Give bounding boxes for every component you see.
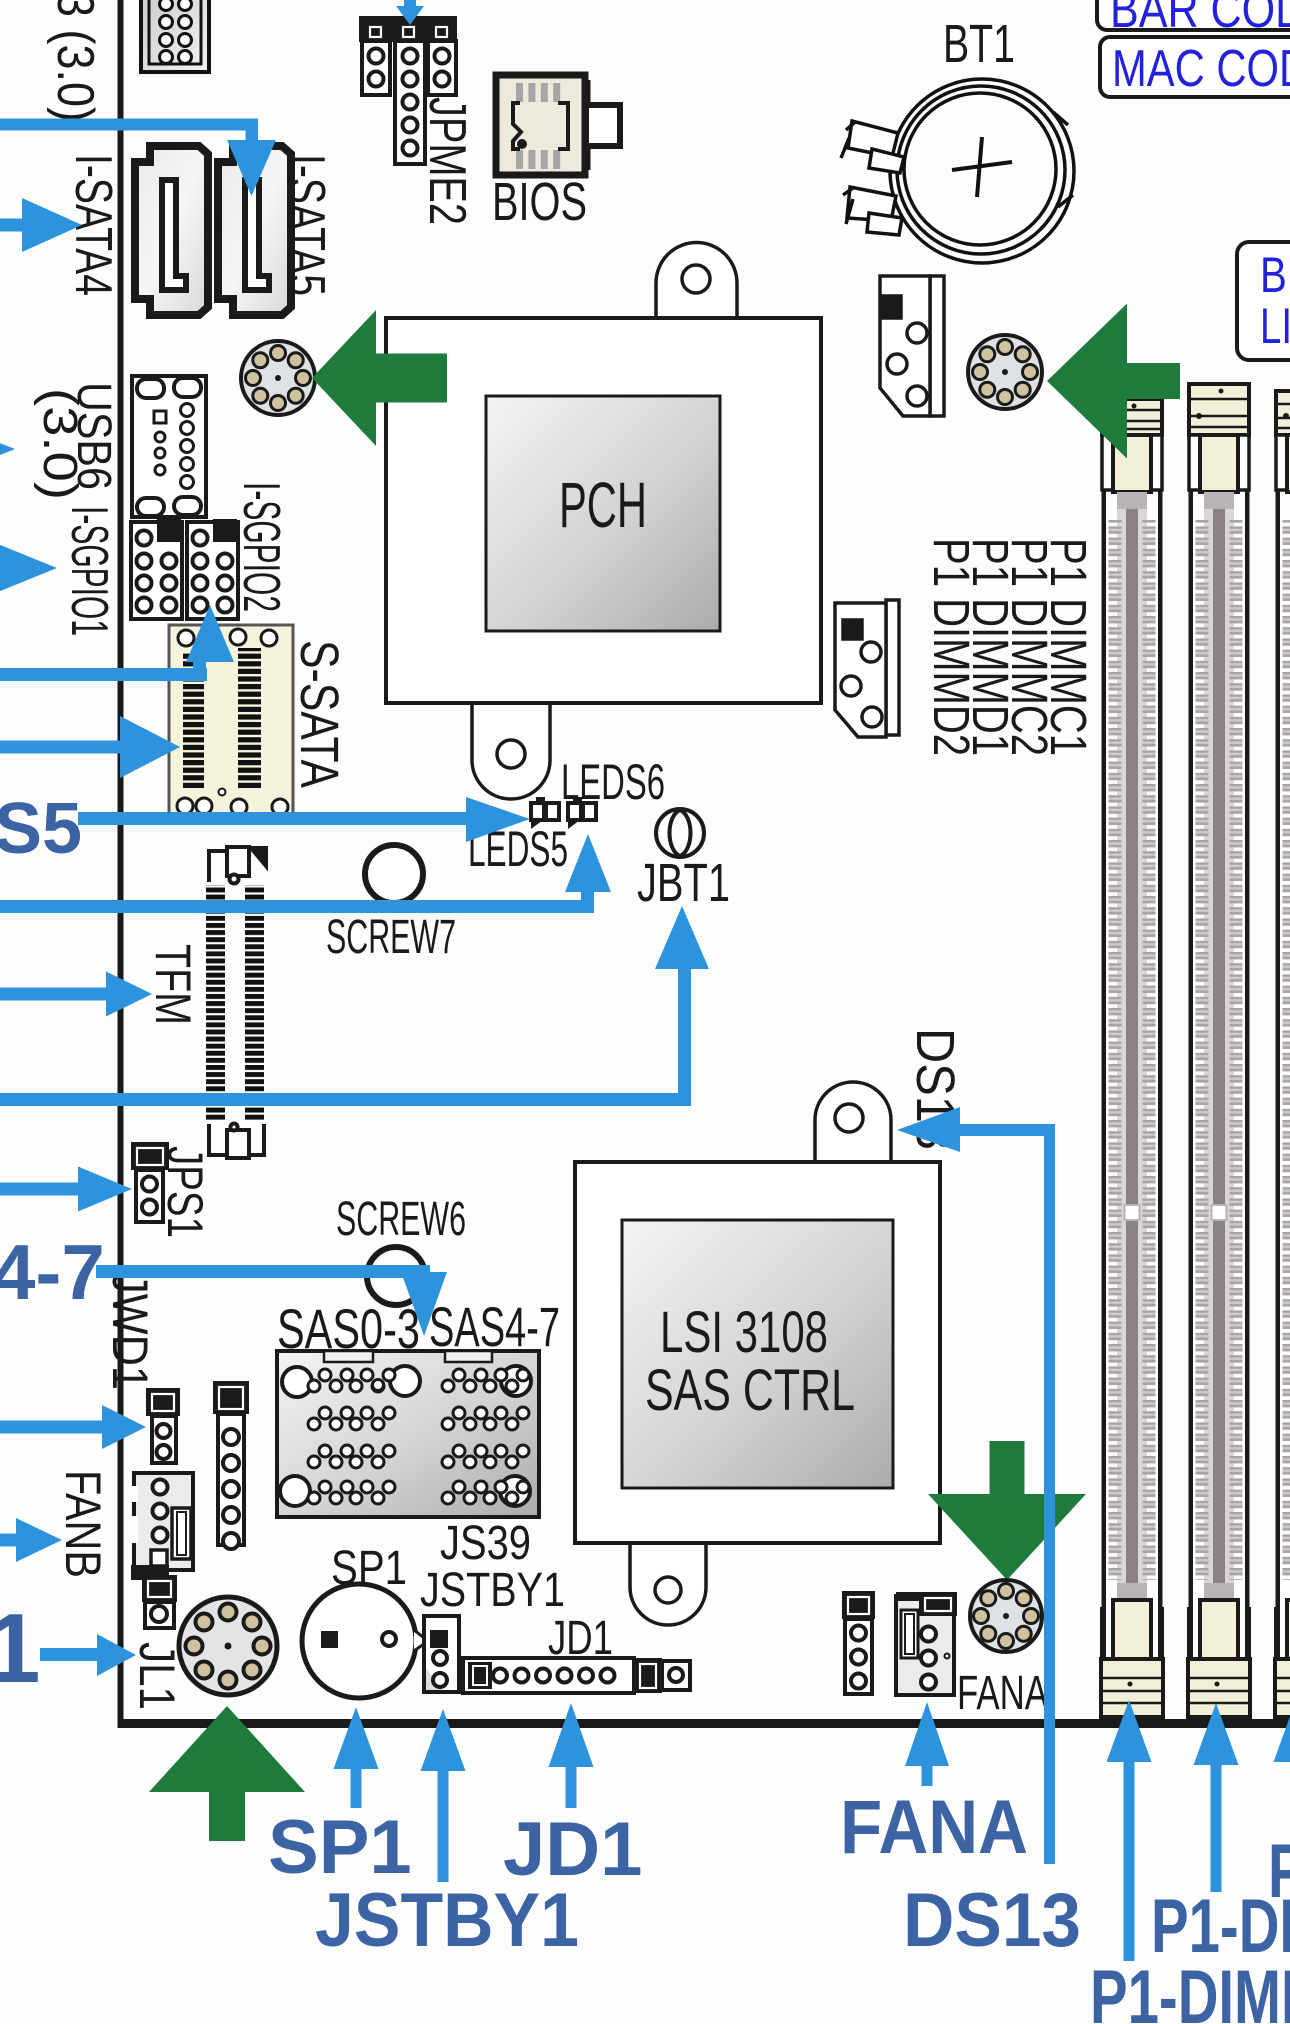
jumper JPS1 — [131, 1142, 169, 1170]
callout arrow to I-SATA4 label — [0, 198, 82, 252]
connector TFM bottom bracket — [209, 1124, 264, 1159]
svg-text:JL1: JL1 — [129, 1642, 185, 1710]
green arrow pointing up at JL1 standoff — [149, 1706, 305, 1841]
callout arrow to P1-DIMMC2 slot — [1194, 1703, 1239, 1892]
standoff hole (left of PCH) — [241, 341, 315, 415]
box MAC CODE — [1100, 37, 1290, 97]
connector S-SATA — [169, 625, 293, 817]
screw hole SCREW6 — [367, 1247, 425, 1305]
green arrow pointing at standoff near DIMMs — [1047, 304, 1180, 459]
svg-text:JSTBY1: JSTBY1 — [420, 1564, 565, 1617]
svg-text:FANA: FANA — [840, 1785, 1028, 1870]
header strip near JWD1 — [213, 1381, 249, 1414]
chip PCH die — [486, 396, 720, 631]
box BIOS LICENSE — [1237, 242, 1290, 360]
header JD1 — [463, 1658, 690, 1693]
wire callout to I-SATA5 — [0, 119, 276, 197]
wire board left edge — [118, 0, 124, 1725]
svg-text:SAS CTRL: SAS CTRL — [645, 1358, 855, 1423]
led LEDS5 pair — [531, 797, 559, 829]
svg-text:LI: LI — [1260, 298, 1290, 354]
wire callout to I-SGPIO2 — [0, 605, 234, 681]
clip component right of PCH (lower) — [835, 600, 899, 737]
jumper pad JBT1 — [656, 809, 704, 857]
wire callout to JL1 — [40, 1634, 136, 1676]
standoff JL1 — [179, 1597, 277, 1695]
chip LSI mounting tab bottom — [630, 1541, 706, 1625]
svg-text:BAR CODE: BAR CODE — [1110, 0, 1290, 39]
svg-text:FANB: FANB — [55, 1470, 111, 1578]
svg-text:I-SATA5: I-SATA5 — [277, 154, 335, 296]
connector DIMM slot P1-DIMMC2 — [1188, 384, 1250, 1717]
wire callout S5 to LEDS5 — [78, 797, 530, 842]
connector TFM pin row left — [206, 885, 225, 1120]
chip LSI mounting tab top — [815, 1082, 891, 1164]
standoff hole (right, near BT1) — [968, 335, 1042, 409]
callout arrow to P1-DIMMC1 slot — [1107, 1700, 1152, 1961]
svg-text:3 (3.0): 3 (3.0) — [46, 0, 104, 122]
svg-text:(3.0): (3.0) — [33, 388, 86, 500]
svg-text:S5: S5 — [0, 789, 82, 869]
callout arrow to FANA — [905, 1702, 949, 1786]
svg-text:SAS0-3: SAS0-3 — [277, 1297, 420, 1360]
svg-text:JPS1: JPS1 — [157, 1146, 213, 1238]
jumper JPME2 pins 1-2 — [362, 41, 390, 95]
connector I-SATA4 — [135, 146, 208, 315]
svg-text:I-SGPIO2: I-SGPIO2 — [232, 482, 290, 612]
svg-text:SCREW7: SCREW7 — [326, 911, 456, 964]
svg-text:1: 1 — [0, 1593, 41, 1703]
chip PCH mounting tab top — [656, 243, 737, 321]
wire callout to LEDS6 — [0, 834, 611, 913]
box BAR CODE — [1097, 0, 1290, 30]
svg-text:JBT1: JBT1 — [637, 853, 730, 913]
svg-text:BIOS: BIOS — [492, 172, 587, 232]
svg-text:4-7: 4-7 — [0, 1228, 105, 1316]
svg-text:JWD1: JWD1 — [102, 1272, 158, 1390]
jumper JPME2 pins right — [428, 41, 456, 95]
chip LSI 3108 die — [622, 1220, 893, 1488]
jumper JPME2 cap bar — [359, 16, 457, 42]
callout arrow to JPME2 — [396, 0, 424, 25]
chip LSI 3108 body — [575, 1162, 940, 1543]
header I-SGPIO2 — [187, 519, 238, 619]
wire callout to DS13 — [897, 1107, 1055, 1864]
connector DIMM slot P1-DIMMC1 — [1101, 399, 1163, 1717]
callout arrow to SP1 — [334, 1707, 379, 1808]
svg-text:BI: BI — [1260, 247, 1290, 303]
callout arrow to JWD1 — [0, 1405, 146, 1449]
connector USB6 (3.0) header — [132, 376, 206, 517]
battery BT1 — [841, 79, 1074, 263]
wire callout to SAS4-7 — [96, 1265, 447, 1336]
callout arrow to JPS1 — [0, 1167, 132, 1212]
svg-text:I-SGPIO1: I-SGPIO1 — [60, 506, 118, 636]
callout arrow to S-SATA — [0, 716, 180, 778]
svg-text:JD1: JD1 — [548, 1612, 613, 1665]
connector USB3 header (cut off at top) — [141, 0, 209, 72]
callout arrow to JSTBY1 — [421, 1709, 466, 1882]
svg-text:PCH: PCH — [559, 469, 647, 541]
svg-text:JPME2: JPME2 — [418, 97, 476, 225]
connector I-SATA5 — [218, 146, 291, 315]
clip component right of PCH (upper) — [880, 276, 944, 416]
svg-text:MAC CODE: MAC CODE — [1112, 40, 1290, 98]
chip PCH body — [386, 318, 821, 703]
svg-text:P1-DIMMC2: P1-DIMMC2 — [1090, 1955, 1290, 2024]
wire callout to JBT1 — [0, 906, 709, 1106]
svg-text:FANA: FANA — [957, 1667, 1048, 1720]
svg-text:S-SATA: S-SATA — [289, 640, 349, 788]
standoff near FANA — [970, 1580, 1042, 1652]
callout arrow to I-SGPIO1 label — [0, 544, 57, 592]
svg-text:P1 DIMMC1: P1 DIMMC1 — [1040, 538, 1097, 756]
jumper JPME2 pins middle — [395, 41, 425, 164]
connector SAS0-3 / SAS4-7 block — [277, 1351, 539, 1517]
connector DIMM slot P1-DIMMD1 — [1275, 391, 1290, 1717]
svg-text:SAS4-7: SAS4-7 — [429, 1295, 560, 1358]
svg-text:SP1: SP1 — [331, 1542, 407, 1595]
connector TFM top bracket — [209, 847, 266, 884]
wire board bottom edge — [118, 1719, 1290, 1728]
svg-text:JD1: JD1 — [503, 1807, 642, 1892]
svg-text:DS13: DS13 — [903, 1878, 1081, 1963]
connector FANA — [896, 1592, 957, 1695]
callout arrow to JD1 — [549, 1703, 594, 1808]
callout arrow to FANB — [0, 1518, 62, 1562]
header 3-pin near FANA — [842, 1591, 875, 1619]
chip PCH mounting tab bottom — [472, 701, 550, 799]
svg-text:SCREW6: SCREW6 — [336, 1193, 466, 1246]
led LEDS6 pair — [568, 797, 596, 829]
callout arrow to USB6 label — [0, 430, 15, 468]
green arrow pointing down at standoff near FANA — [928, 1441, 1086, 1580]
header I-SGPIO1 — [131, 519, 182, 619]
svg-text:LSI 3108: LSI 3108 — [660, 1300, 828, 1365]
svg-text:JS39: JS39 — [440, 1517, 531, 1570]
svg-text:BT1: BT1 — [943, 14, 1015, 74]
callout arrow to P1-DIMMD1 slot — [1274, 1700, 1290, 1892]
header JSTBY1 — [424, 1616, 459, 1692]
screw hole SCREW7 — [365, 845, 423, 903]
svg-text:LEDS6: LEDS6 — [561, 754, 665, 810]
green arrow pointing at standoff left of PCH — [312, 310, 447, 446]
callout arrow to TFM — [0, 972, 152, 1017]
connector TFM pin row right — [245, 885, 264, 1120]
svg-text:TFM: TFM — [145, 944, 201, 1025]
speaker SP1 — [302, 1584, 428, 1698]
jumper JWD1 — [146, 1388, 180, 1416]
chip BIOS socket — [496, 75, 620, 175]
connector FANB — [130, 1473, 193, 1628]
